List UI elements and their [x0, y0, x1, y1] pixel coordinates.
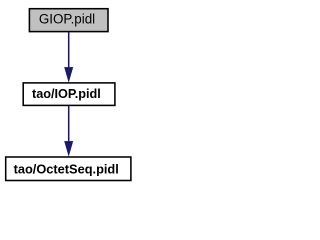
svg-text:GIOP.pidl: GIOP.pidl	[39, 12, 95, 27]
svg-text:tao/OctetSeq.pidl: tao/OctetSeq.pidl	[14, 161, 119, 176]
edge 2 arrowhead	[65, 141, 73, 155]
wire edge 1 shaft GIOP.pidl -> tao/IOP.pidl	[68, 32, 70, 69]
svg-text:tao/IOP.pidl: tao/IOP.pidl	[32, 87, 101, 101]
edge 1 arrowhead	[65, 67, 73, 81]
node tao/IOP.pidl (white box)	[23, 83, 115, 106]
node tao/OctetSeq.pidl (white box)	[6, 157, 131, 181]
node GIOP.pidl (root, grey filled box)	[29, 9, 108, 32]
wire edge 2 shaft tao/IOP.pidl -> tao/OctetSeq.pidl	[68, 106, 70, 143]
